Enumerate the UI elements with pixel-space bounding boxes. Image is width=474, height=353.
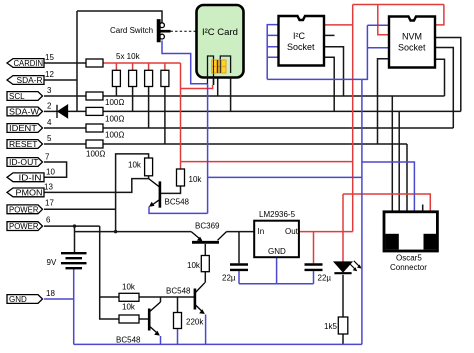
I2C Card (green card body) — [197, 5, 244, 78]
svg-text:Connector: Connector — [390, 263, 427, 272]
wire I2C socket pin7 to SDA-W — [324, 57, 334, 111]
svg-text:4: 4 — [47, 118, 52, 127]
svg-text:LM2936-5: LM2936-5 — [259, 210, 296, 219]
svg-text:10k: 10k — [122, 283, 136, 292]
svg-text:13: 13 — [44, 183, 53, 192]
svg-text:18: 18 — [46, 289, 55, 298]
pin GND (output arrow) — [7, 295, 43, 304]
wire blue I2C socket left pin bus — [267, 25, 278, 80]
resistor R2 100R (SCL) — [86, 92, 103, 100]
wire SDA-R row — [44, 79, 77, 81]
svg-text:22µ: 22µ — [222, 274, 236, 283]
svg-text:SDA-R: SDA-R — [17, 76, 43, 85]
LED D2 — [334, 261, 361, 273]
capacitor C2 22u — [305, 265, 323, 270]
svg-text:Oscar5: Oscar5 — [396, 254, 422, 263]
resistor R1 10k (CARDIN series) — [86, 59, 103, 67]
resistor R3 100R (SDA-W) — [86, 107, 103, 115]
pin IDENT (output arrow) — [7, 124, 43, 133]
resistor R11 220k — [174, 313, 182, 329]
wire R5 bottom to Q1 collector node — [148, 176, 150, 179]
wire POWER 6 row — [44, 225, 100, 227]
wire card contact pin to SCL — [217, 66, 219, 96]
svg-text:10k: 10k — [128, 161, 142, 170]
junction dot battery plus — [73, 224, 76, 227]
transistor Q3 BC548 (Q4 base driver) — [195, 283, 205, 314]
resistor 100R (RESET) — [86, 140, 103, 148]
wire blue battery minus lead — [73, 269, 75, 344]
svg-text:Socket: Socket — [398, 43, 426, 53]
wire SDA-W pin to diode — [44, 110, 57, 112]
svg-text:BC548: BC548 — [165, 198, 190, 207]
wire IDENT to NVM right pin3 — [435, 48, 453, 129]
wire blue Q2 emitter riser — [160, 336, 162, 344]
wire blue GND rail y283.8 — [239, 283, 314, 285]
svg-text:7: 7 — [45, 153, 50, 162]
wire red vertical x180.5 card VCC — [180, 63, 182, 162]
wire blue C1 bottom lead — [238, 271, 240, 284]
wire blue row y177.4 — [208, 176, 362, 178]
wire red R6 top stub — [180, 162, 182, 169]
wire blue NVM left pin1 — [367, 24, 389, 26]
card contact pad — [212, 60, 226, 73]
svg-text:SCL: SCL — [9, 92, 25, 101]
pin RESET (output arrow) — [7, 140, 43, 149]
wire pullup RN4 bottom stub to RESET — [164, 87, 166, 145]
wire red I2C socket pin1 — [324, 24, 353, 26]
resistor R5 10k (Q1 collector pullup) — [145, 158, 153, 176]
op IC U3 NVM Socket — [389, 17, 435, 68]
svg-text:2: 2 — [47, 102, 52, 111]
card contact staple left — [208, 56, 214, 85]
wire NVM left pin4 to RESET — [378, 59, 390, 144]
wire blue Q1 emitter return — [149, 207, 208, 214]
wire red LM2936 Out — [299, 231, 353, 233]
wire Oscar5 connector stub pin — [422, 205, 424, 212]
svg-text:Socket: Socket — [287, 42, 315, 52]
wire red row y161.6 — [181, 161, 353, 163]
svg-text:10k: 10k — [189, 175, 203, 184]
wire red NVM left pin2 — [378, 5, 389, 35]
svg-text:5: 5 — [47, 134, 52, 143]
resistor R10 1k5 — [338, 317, 348, 334]
wire I2C socket pin6 to SCL — [324, 47, 344, 96]
svg-text:22µ: 22µ — [318, 274, 332, 283]
battery BT1 9V — [61, 253, 87, 268]
svg-text:5x 10k: 5x 10k — [116, 52, 141, 61]
wire red CARDIN rail y63 — [103, 62, 181, 64]
wire red C2 top lead — [313, 232, 315, 264]
svg-text:Out: Out — [285, 227, 299, 236]
wire POWER6 drop x99.7 — [99, 226, 101, 316]
transistor Q1 BC548 (mirrored NPN) — [149, 179, 160, 208]
svg-text:NVM: NVM — [402, 32, 422, 42]
svg-text:I²C Card: I²C Card — [202, 27, 238, 38]
svg-text:PMON: PMON — [16, 189, 43, 198]
svg-text:9V: 9V — [47, 258, 57, 267]
svg-text:220k: 220k — [186, 318, 204, 327]
pin ID-IN (input arrow) — [7, 173, 44, 182]
wire R10 bottom lead — [342, 334, 344, 344]
wire SCL to NVM right pin4 — [435, 59, 445, 96]
wire red pullup top stubs — [116, 63, 164, 70]
resistor R4 100R (IDENT) — [86, 124, 103, 132]
pin PMON (input arrow) — [7, 188, 44, 197]
card contact pad wires crossing — [214, 60, 221, 73]
pin SDA-W (output arrow) — [7, 107, 43, 116]
wire pullup RN1 bottom stub to SCL — [115, 87, 117, 97]
wire red row y194 to Oscar5 connector — [343, 194, 430, 212]
svg-text:GND: GND — [268, 247, 286, 256]
svg-text:POWER: POWER — [9, 205, 39, 214]
wire +9V vertical x115.6 to R5 top — [116, 154, 149, 232]
pin POWER 17 (output arrow) — [7, 205, 43, 214]
junction dot +9V node — [114, 230, 117, 233]
wire card contact pin to SDA-W — [230, 56, 232, 111]
wire C1 top lead — [238, 232, 240, 264]
wire blue C2 bottom lead — [313, 271, 315, 284]
wire ID-OUT to ID-IN loop — [44, 162, 67, 177]
svg-text:10: 10 — [46, 168, 55, 177]
svg-text:CARDIN: CARDIN — [14, 59, 44, 68]
card switch SW1 — [157, 20, 196, 42]
wire POWER 17 row — [44, 208, 116, 210]
svg-text:100Ω: 100Ω — [86, 150, 105, 159]
transistor Q4 BC369 (PNP) — [191, 232, 226, 243]
resistor R9 10k (Q4 base) — [201, 256, 209, 272]
wire blue I2C socket bottom rail y79.4 — [267, 78, 362, 80]
wire SDA-W drop to Oscar5 connector — [398, 111, 400, 211]
svg-text:ID-OUT: ID-OUT — [9, 158, 39, 167]
svg-text:100Ω: 100Ω — [105, 98, 124, 107]
wire blue main vertical x361.9 — [361, 79, 363, 344]
wire RESET row — [44, 143, 407, 145]
svg-text:1k5: 1k5 — [324, 322, 337, 331]
wire Q4 collector to LM2936 In — [227, 231, 255, 233]
svg-text:ID-IN: ID-IN — [19, 173, 42, 182]
wire +9V horizontal to Q4 emitter — [75, 231, 192, 233]
wire top rail to card switch — [77, 11, 162, 23]
wire R9 bottom to Q3 collector — [204, 272, 206, 283]
card contact staple right — [220, 56, 230, 73]
resistor pullup RN1 10k — [112, 70, 120, 86]
wire blue LM2936 GND lead — [276, 257, 278, 284]
pin POWER 6 (output arrow) — [7, 222, 43, 231]
wire LED cathode to R10 — [342, 275, 344, 317]
svg-text:100Ω: 100Ω — [105, 131, 124, 140]
wire battery top lead — [74, 226, 76, 252]
wire RESET drop to Oscar5 connector — [406, 144, 408, 212]
Oscar5 connector body — [384, 212, 437, 251]
WIRES-RED — [103, 5, 444, 264]
svg-text:I²C: I²C — [293, 31, 305, 41]
svg-text:Card Switch: Card Switch — [110, 26, 153, 35]
wire pullup RN3 bottom stub to IDENT — [148, 87, 150, 129]
wire blue NVM left pin3 — [367, 47, 389, 49]
wire IDENT row — [44, 127, 453, 129]
wire Q2 collector riser to Q2 base node — [160, 297, 162, 302]
wire SCL drop to Oscar5 connector — [391, 96, 393, 212]
wire blue R11 bottom lead — [177, 329, 179, 345]
svg-text:17: 17 — [45, 199, 54, 208]
wire blue branch y162 to Oscar5 connector — [362, 162, 415, 212]
svg-text:In: In — [258, 227, 265, 236]
regulator U1 LM2936-5 box — [254, 221, 299, 258]
capacitor C1 22u — [230, 265, 248, 270]
svg-text:RESET: RESET — [9, 140, 38, 149]
resistor pullup RN3 10k — [145, 70, 153, 86]
resistor R7 10k (Q3 base) — [119, 293, 139, 301]
pin ID-OUT (output arrow) — [7, 158, 43, 167]
wire 220k R11 top lead — [177, 297, 179, 313]
op IC U2 I2C Socket — [279, 16, 325, 66]
wire blue Q3 emitter riser — [205, 315, 207, 345]
wire R6 bottom lead and Q1 base wire — [161, 186, 181, 193]
svg-text:100Ω: 100Ω — [105, 115, 124, 124]
wire R7 leads — [100, 296, 195, 298]
wire red NVM right pin1 — [435, 5, 444, 25]
pin CARDIN (input arrow) — [7, 59, 44, 68]
wire SDA-W to NVM right pin2 — [435, 38, 461, 112]
wire SDA-W row — [67, 110, 461, 112]
wire card contact pin CARDIN upper part — [213, 56, 215, 85]
wire blue main vertical upper x367.4 — [362, 25, 368, 79]
wire R8 leads — [100, 317, 150, 320]
pin SDA-R (input arrow) — [7, 76, 44, 85]
wire red main vertical x352.7 — [352, 5, 354, 232]
wire blue GND row — [44, 298, 74, 300]
svg-text:BC369: BC369 — [195, 222, 220, 231]
wire I2C socket pin5 NC stub — [324, 34, 335, 36]
wire blue card contact vertical x207.6 — [207, 84, 209, 214]
wire blue card switch to card contact — [162, 41, 208, 84]
wire pullup RN2 bottom stub to SDA-W — [132, 87, 134, 112]
svg-text:SDA-W: SDA-W — [9, 107, 39, 116]
wire Q4 base lead — [204, 244, 206, 256]
svg-text:IDENT: IDENT — [9, 124, 37, 133]
wire CARDIN row to R1 — [44, 62, 86, 64]
wire blue bottom rail y344.4 — [74, 343, 362, 345]
svg-text:10k: 10k — [122, 303, 136, 312]
transistor Q2 BC548 (bottom) — [149, 302, 160, 336]
svg-text:10k: 10k — [187, 261, 201, 270]
resistor R8 10k (Q2 base) — [119, 315, 139, 323]
svg-text:BC548: BC548 — [116, 336, 141, 345]
diode D1 (SDA-W) — [57, 105, 68, 118]
wire net vertical x77 (switch rail to SDA-W) — [76, 11, 78, 111]
resistor pullup RN2 10k — [129, 70, 137, 86]
svg-text:GND: GND — [9, 295, 27, 304]
svg-text:POWER: POWER — [9, 222, 39, 231]
svg-text:3: 3 — [47, 86, 52, 95]
wire red LED anode lead — [342, 194, 344, 262]
svg-text:6: 6 — [46, 216, 51, 225]
svg-text:BC548: BC548 — [166, 287, 191, 296]
wire red top rail y4.5 — [353, 4, 444, 6]
wire SCL row — [44, 95, 445, 97]
svg-text:15: 15 — [45, 53, 54, 62]
WIRES-BLUE — [44, 25, 414, 345]
wire red branch to card contact — [181, 85, 213, 89]
resistor pullup RN4 10k — [161, 70, 169, 86]
pin SCL (output arrow) — [7, 92, 43, 101]
resistor R6 10k (Q1 base) — [177, 169, 185, 186]
svg-text:12: 12 — [45, 70, 54, 79]
wire PMON row with jog to Q1 collector node — [44, 179, 149, 193]
